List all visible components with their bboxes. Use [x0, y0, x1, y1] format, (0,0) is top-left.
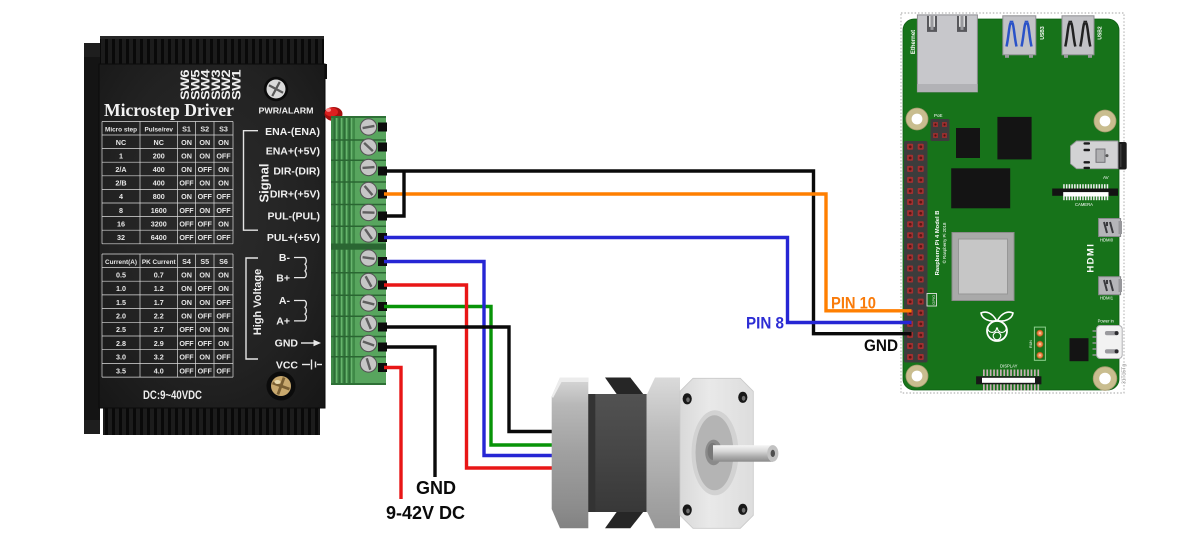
svg-text:2.8: 2.8: [116, 339, 126, 348]
svg-text:Pulse/rev: Pulse/rev: [145, 126, 174, 133]
svg-text:PWR/ALARM: PWR/ALARM: [259, 106, 314, 116]
svg-text:SW1: SW1: [230, 69, 244, 100]
Signal group bracket: [244, 131, 259, 231]
svg-text:DIR+(+5V): DIR+(+5V): [270, 189, 320, 201]
svg-text:ON: ON: [181, 192, 192, 201]
chip small: [956, 128, 980, 158]
pi pcb: [903, 19, 1119, 390]
svg-text:800: 800: [153, 192, 165, 201]
svg-text:400: 400: [153, 179, 165, 188]
microstep driver U1: [84, 36, 343, 435]
USB2 port: [1062, 16, 1094, 55]
svg-text:OFF: OFF: [216, 206, 231, 215]
svg-text:OFF: OFF: [216, 192, 231, 201]
wire PUL+ to PIN 8 (blue): [384, 238, 912, 323]
GPIO header J8: [904, 141, 928, 363]
svg-text:Microstep Driver: Microstep Driver: [104, 100, 234, 120]
svg-text:ON: ON: [218, 165, 229, 174]
3-pin debug header: [1034, 327, 1045, 360]
svg-text:ON: ON: [181, 312, 192, 321]
svg-text:RUN: RUN: [1029, 340, 1033, 348]
terminal cell dividers: [331, 140, 386, 357]
svg-text:1.0: 1.0: [116, 284, 126, 293]
svg-text:2.7: 2.7: [154, 325, 164, 334]
power pin labels: [275, 252, 299, 372]
svg-text:ON: ON: [199, 270, 210, 279]
svg-text:GND: GND: [275, 338, 299, 350]
svg-text:ON: ON: [218, 270, 229, 279]
svg-text:NC: NC: [116, 138, 126, 147]
VCC battery symbol: [302, 360, 322, 370]
svg-text:Power in: Power in: [1098, 319, 1115, 324]
svg-text:2.5: 2.5: [116, 325, 126, 334]
svg-text:S6: S6: [219, 257, 228, 266]
svg-text:3200: 3200: [151, 219, 167, 228]
svg-text:© Raspberry Pi 2018: © Raspberry Pi 2018: [942, 222, 947, 263]
svg-text:OFF: OFF: [179, 339, 194, 348]
svg-text:HDMI1: HDMI1: [1100, 296, 1114, 301]
svg-text:Current(A): Current(A): [105, 259, 137, 266]
chip bottom: [1070, 338, 1089, 361]
High Voltage group bracket: [246, 258, 258, 359]
motor gray section: [647, 378, 680, 529]
svg-text:Raspberry Pi 4 Model B: Raspberry Pi 4 Model B: [935, 211, 941, 276]
svg-text:OFF: OFF: [216, 312, 231, 321]
svg-text:USB3: USB3: [1040, 26, 1046, 40]
svg-text:OFF: OFF: [198, 192, 213, 201]
bottom screw: [267, 372, 296, 401]
motor back cap: [552, 378, 589, 529]
svg-text:2/A: 2/A: [115, 165, 126, 174]
motor black bottom notch: [605, 511, 644, 529]
svg-text:B+: B+: [276, 273, 290, 285]
wire B- to motor blue: [384, 262, 553, 456]
svg-text:PIN 10: PIN 10: [831, 294, 876, 313]
display connector: [983, 370, 1039, 391]
svg-text:NC: NC: [154, 138, 164, 147]
svg-text:ON: ON: [218, 284, 229, 293]
current table: [102, 254, 233, 377]
GND arrow symbol: [301, 342, 317, 344]
svg-text:4: 4: [119, 192, 123, 201]
svg-text:OFF: OFF: [198, 219, 213, 228]
svg-text:DISPLAY: DISPLAY: [1000, 364, 1018, 369]
svg-text:OFF: OFF: [216, 151, 231, 160]
svg-text:High Voltage: High Voltage: [252, 269, 264, 335]
svg-text:OFF: OFF: [179, 325, 194, 334]
wire DIR- to Pi GND (black): [384, 171, 912, 334]
audio jack: [1118, 142, 1127, 170]
svg-text:Ethernet: Ethernet: [911, 30, 917, 54]
svg-text:OFF: OFF: [198, 233, 213, 242]
svg-text:ON: ON: [218, 179, 229, 188]
svg-text:CAMERA: CAMERA: [1075, 202, 1093, 207]
svg-text:A+: A+: [276, 316, 290, 328]
svg-text:ON: ON: [218, 339, 229, 348]
wire B+ to motor red: [384, 285, 553, 468]
coil symbol A: [294, 301, 306, 321]
wire A- to motor green: [384, 307, 553, 446]
svg-text:OFF: OFF: [198, 284, 213, 293]
svg-text:ON: ON: [199, 206, 210, 215]
wire DIR+ to PIN 10 (orange): [384, 194, 912, 311]
svg-text:ON: ON: [199, 151, 210, 160]
svg-text:OFF: OFF: [216, 233, 231, 242]
motor screw hole TL: [683, 393, 692, 404]
svg-text:ON: ON: [181, 284, 192, 293]
motor dark mid body: [588, 394, 646, 512]
svg-text:200: 200: [153, 151, 165, 160]
terminal screws: [360, 119, 376, 135]
svg-text:ON: ON: [199, 353, 210, 362]
signal pin labels: [265, 126, 320, 244]
svg-text:1.7: 1.7: [154, 298, 164, 307]
driver bottom heatsink band: [103, 407, 320, 435]
svg-text:B-: B-: [279, 252, 291, 264]
svg-text:32: 32: [117, 233, 125, 242]
motor black top notch: [605, 378, 644, 396]
mounting hole TL: [906, 108, 928, 130]
svg-text:GND: GND: [416, 478, 456, 498]
svg-text:OFF: OFF: [179, 206, 194, 215]
raspberry pi logo: [981, 312, 1013, 341]
motor screw hole BL: [683, 504, 692, 515]
svg-text:S3: S3: [219, 124, 228, 133]
svg-text:OFF: OFF: [179, 233, 194, 242]
svg-text:OFF: OFF: [179, 219, 194, 228]
ethernet port: [917, 15, 977, 92]
svg-text:PK Current: PK Current: [142, 259, 177, 266]
svg-text:Micro step: Micro step: [105, 126, 137, 133]
svg-text:OFF: OFF: [198, 339, 213, 348]
svg-text:ON: ON: [218, 138, 229, 147]
driver main face: [99, 64, 325, 408]
svg-text:PIN 8: PIN 8: [746, 314, 784, 333]
svg-text:OFF: OFF: [179, 179, 194, 188]
motor screw hole BR: [738, 504, 747, 515]
svg-text:DC:9~40VDC: DC:9~40VDC: [143, 388, 202, 402]
screw PWR/ALARM: [264, 77, 288, 101]
selection dashed border: [901, 13, 1124, 393]
svg-text:DIR-(DIR): DIR-(DIR): [273, 166, 320, 178]
svg-text:1600: 1600: [151, 206, 167, 215]
camera connector: [1063, 184, 1108, 189]
svg-text:GND: GND: [864, 336, 898, 355]
micro HDMI 0: [1099, 219, 1121, 237]
jumper wire PUL- to DIR- (black): [384, 171, 404, 216]
svg-text:ON: ON: [181, 138, 192, 147]
driver left flange: [84, 43, 100, 434]
coil symbol B: [294, 258, 306, 278]
USB3 port: [1003, 16, 1036, 55]
svg-text:31T15Tg: 31T15Tg: [1122, 364, 1128, 384]
svg-text:3.5: 3.5: [116, 366, 126, 375]
PoE header: [931, 119, 950, 141]
svg-text:OFF: OFF: [216, 366, 231, 375]
svg-text:VCC: VCC: [276, 360, 299, 372]
mounting hole TR: [1094, 110, 1116, 132]
svg-text:S5: S5: [200, 257, 209, 266]
svg-text:400: 400: [153, 165, 165, 174]
svg-text:ON: ON: [199, 298, 210, 307]
svg-text:4.0: 4.0: [154, 366, 164, 375]
wire GND (black, to label): [384, 347, 435, 477]
motor shaft: [713, 445, 773, 462]
svg-text:S1: S1: [182, 124, 191, 133]
svg-text:OFF: OFF: [179, 353, 194, 362]
svg-text:ON: ON: [181, 165, 192, 174]
svg-text:ON: ON: [199, 325, 210, 334]
chip medium: [997, 117, 1031, 159]
svg-text:ON: ON: [218, 219, 229, 228]
motor hub: [705, 440, 722, 466]
svg-text:AV: AV: [1103, 175, 1109, 180]
svg-text:PUL+(+5V): PUL+(+5V): [267, 232, 320, 244]
GPIO label: [927, 294, 937, 307]
svg-text:PoE: PoE: [934, 113, 943, 118]
svg-text:8: 8: [119, 206, 123, 215]
svg-text:ON: ON: [218, 325, 229, 334]
microstep table: [102, 122, 233, 244]
svg-text:HDMI: HDMI: [1086, 243, 1097, 273]
USB-C power port: [1093, 331, 1097, 355]
svg-text:HDMI0: HDMI0: [1100, 238, 1114, 243]
svg-text:OFF: OFF: [198, 312, 213, 321]
RAM chip: [951, 168, 1010, 208]
svg-text:S2: S2: [200, 124, 209, 133]
motor boss ring: [692, 410, 739, 495]
CPU: [952, 233, 1014, 301]
raspberry pi board U2: [901, 13, 1128, 393]
mounting hole BL: [906, 365, 928, 387]
driver top heatsink band: [100, 36, 324, 66]
motor front plate: [680, 378, 753, 528]
svg-text:OFF: OFF: [216, 353, 231, 362]
svg-text:1: 1: [119, 151, 123, 160]
svg-text:OFF: OFF: [179, 366, 194, 375]
svg-text:16: 16: [117, 219, 125, 228]
svg-text:ON: ON: [181, 151, 192, 160]
svg-text:0.7: 0.7: [154, 270, 164, 279]
svg-text:ON: ON: [181, 298, 192, 307]
svg-text:OFF: OFF: [198, 165, 213, 174]
svg-text:2/B: 2/B: [115, 179, 126, 188]
svg-text:1.2: 1.2: [154, 284, 164, 293]
svg-text:9-42V DC: 9-42V DC: [386, 503, 465, 523]
wire VCC (red, to label): [384, 368, 401, 500]
svg-text:ON: ON: [199, 179, 210, 188]
svg-text:OFF: OFF: [198, 366, 213, 375]
svg-text:0.5: 0.5: [116, 270, 126, 279]
svg-text:2.9: 2.9: [154, 339, 164, 348]
svg-text:ON: ON: [181, 270, 192, 279]
wire A+ to motor black: [384, 327, 553, 432]
red LED: [325, 107, 343, 121]
terminal wire tabs: [378, 123, 387, 132]
svg-text:ENA+(+5V): ENA+(+5V): [266, 146, 320, 158]
svg-text:OFF: OFF: [216, 298, 231, 307]
micro HDMI 1: [1099, 277, 1121, 295]
svg-text:2.0: 2.0: [116, 312, 126, 321]
svg-text:USB2: USB2: [1098, 26, 1104, 40]
svg-text:PUL-(PUL): PUL-(PUL): [268, 211, 321, 223]
svg-text:S4: S4: [182, 257, 191, 266]
svg-text:6400: 6400: [151, 233, 167, 242]
svg-text:3.0: 3.0: [116, 353, 126, 362]
svg-text:ENA-(ENA): ENA-(ENA): [265, 126, 320, 138]
green terminal block: [331, 116, 386, 385]
svg-text:A-: A-: [279, 295, 291, 307]
svg-text:2.2: 2.2: [154, 312, 164, 321]
svg-text:1.5: 1.5: [116, 298, 126, 307]
svg-text:GPIO: GPIO: [931, 295, 936, 305]
mounting hole BR: [1093, 367, 1117, 391]
svg-text:ON: ON: [199, 138, 210, 147]
svg-text:3.2: 3.2: [154, 353, 164, 362]
stepper motor M1: [552, 378, 779, 529]
motor screw hole TR: [738, 392, 747, 403]
